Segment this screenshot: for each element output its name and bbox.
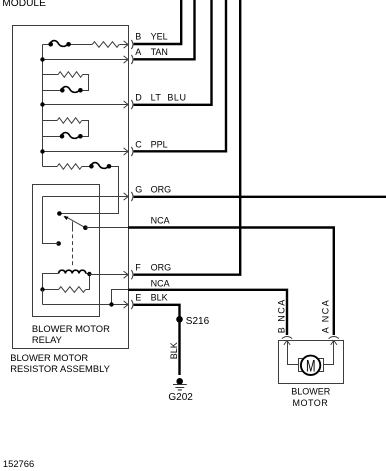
- wire C PPL thick: [134, 0, 226, 151]
- node D row wire: [43, 104, 129, 106]
- relay switch blade: [65, 216, 86, 228]
- svg-text:A: A: [135, 47, 141, 57]
- relay coil: [59, 270, 86, 273]
- svg-text:TAN: TAN: [151, 47, 168, 57]
- svg-text:RESISTOR ASSEMBLY: RESISTOR ASSEMBLY: [10, 363, 110, 374]
- junction node E/NCA2: [109, 302, 113, 306]
- svg-text:M: M: [306, 357, 316, 375]
- motor brush right: [318, 359, 324, 372]
- svg-text:G202: G202: [168, 392, 193, 403]
- relay lower contact: [56, 241, 61, 246]
- resistor R2: [58, 72, 83, 78]
- blower motor resistor assembly box: [13, 26, 129, 349]
- thermal limiter T3: [61, 133, 80, 139]
- svg-text:D: D: [135, 93, 142, 103]
- motor brush left: [299, 359, 305, 372]
- wire F ORG thick: [134, 0, 241, 275]
- wire A TAN thick: [134, 0, 195, 59]
- relay box: [33, 185, 100, 317]
- wire left junction chain vertical: [42, 45, 44, 167]
- wire NCA2 thick to motor B: [128, 289, 287, 335]
- thermal limiter T4: [90, 163, 109, 169]
- svg-text:152766: 152766: [3, 458, 34, 469]
- motor connector A socket: [329, 337, 339, 339]
- wire NCA2 stub: [112, 290, 129, 305]
- resistor R4: [57, 164, 82, 170]
- wire row B lead: [43, 44, 129, 46]
- resistor R1: [92, 42, 119, 48]
- connector sockets (parens): [131, 40, 133, 309]
- connector arrows at resistor box edge: [124, 41, 129, 308]
- wire coil left leg: [43, 274, 59, 290]
- svg-text:BLK: BLK: [169, 342, 179, 359]
- svg-text:NCA: NCA: [151, 278, 170, 288]
- relay switch pivot: [57, 211, 62, 216]
- svg-text:MOTOR: MOTOR: [292, 398, 328, 408]
- svg-text:NCA: NCA: [151, 216, 170, 226]
- svg-text:LT BLU: LT BLU: [151, 93, 187, 103]
- wire row R2: [43, 75, 89, 91]
- svg-text:F: F: [135, 263, 141, 273]
- svg-text:BLOWER MOTOR: BLOWER MOTOR: [10, 352, 88, 363]
- wire motor internal: [288, 341, 334, 365]
- svg-text:BLOWER MOTOR: BLOWER MOTOR: [32, 323, 110, 334]
- node C row wire: [43, 151, 129, 153]
- svg-text:ORG: ORG: [151, 263, 172, 273]
- svg-text:MODULE: MODULE: [2, 0, 46, 9]
- svg-text:C: C: [135, 139, 142, 149]
- svg-text:A NCA: A NCA: [321, 299, 331, 334]
- svg-text:B: B: [135, 32, 141, 42]
- svg-text:ORG: ORG: [151, 185, 172, 195]
- motor M circle: [301, 356, 320, 375]
- blower motor box: [279, 341, 344, 384]
- svg-text:BLK: BLK: [151, 293, 168, 303]
- wire F thin out of relay: [89, 274, 128, 276]
- resistor R3: [57, 118, 82, 124]
- resistor R5 (coil shunt): [43, 274, 90, 293]
- node A row wire: [43, 59, 129, 61]
- svg-text:YEL: YEL: [151, 32, 168, 42]
- wire B YEL thick: [134, 0, 182, 44]
- svg-text:E: E: [135, 293, 141, 303]
- wire G path inside relay: [43, 197, 129, 244]
- thermal limiter T2: [61, 87, 80, 93]
- thermal limiter T1: [49, 41, 70, 47]
- svg-text:S216: S216: [186, 316, 210, 327]
- splice S216: [176, 316, 183, 323]
- wire row R4/T4 to relay common: [43, 167, 119, 214]
- wire D LT BLU thick: [134, 0, 212, 105]
- wire NCA1 thick to motor A: [128, 226, 333, 335]
- relay actuation dashed link: [72, 222, 74, 232]
- svg-text:RELAY: RELAY: [32, 334, 63, 345]
- wire NCA1 thin from blade: [85, 227, 128, 229]
- wire E BLK thick: [134, 304, 180, 375]
- ground G202: [176, 378, 183, 385]
- svg-text:PPL: PPL: [151, 139, 168, 149]
- wire G ORG thick: [134, 196, 386, 198]
- wire row R3: [43, 121, 89, 137]
- motor connector B socket: [282, 337, 292, 339]
- wire E row thin: [43, 290, 129, 305]
- svg-text:B NCA: B NCA: [277, 298, 287, 333]
- svg-text:G: G: [135, 185, 142, 195]
- svg-text:BLOWER: BLOWER: [291, 386, 331, 396]
